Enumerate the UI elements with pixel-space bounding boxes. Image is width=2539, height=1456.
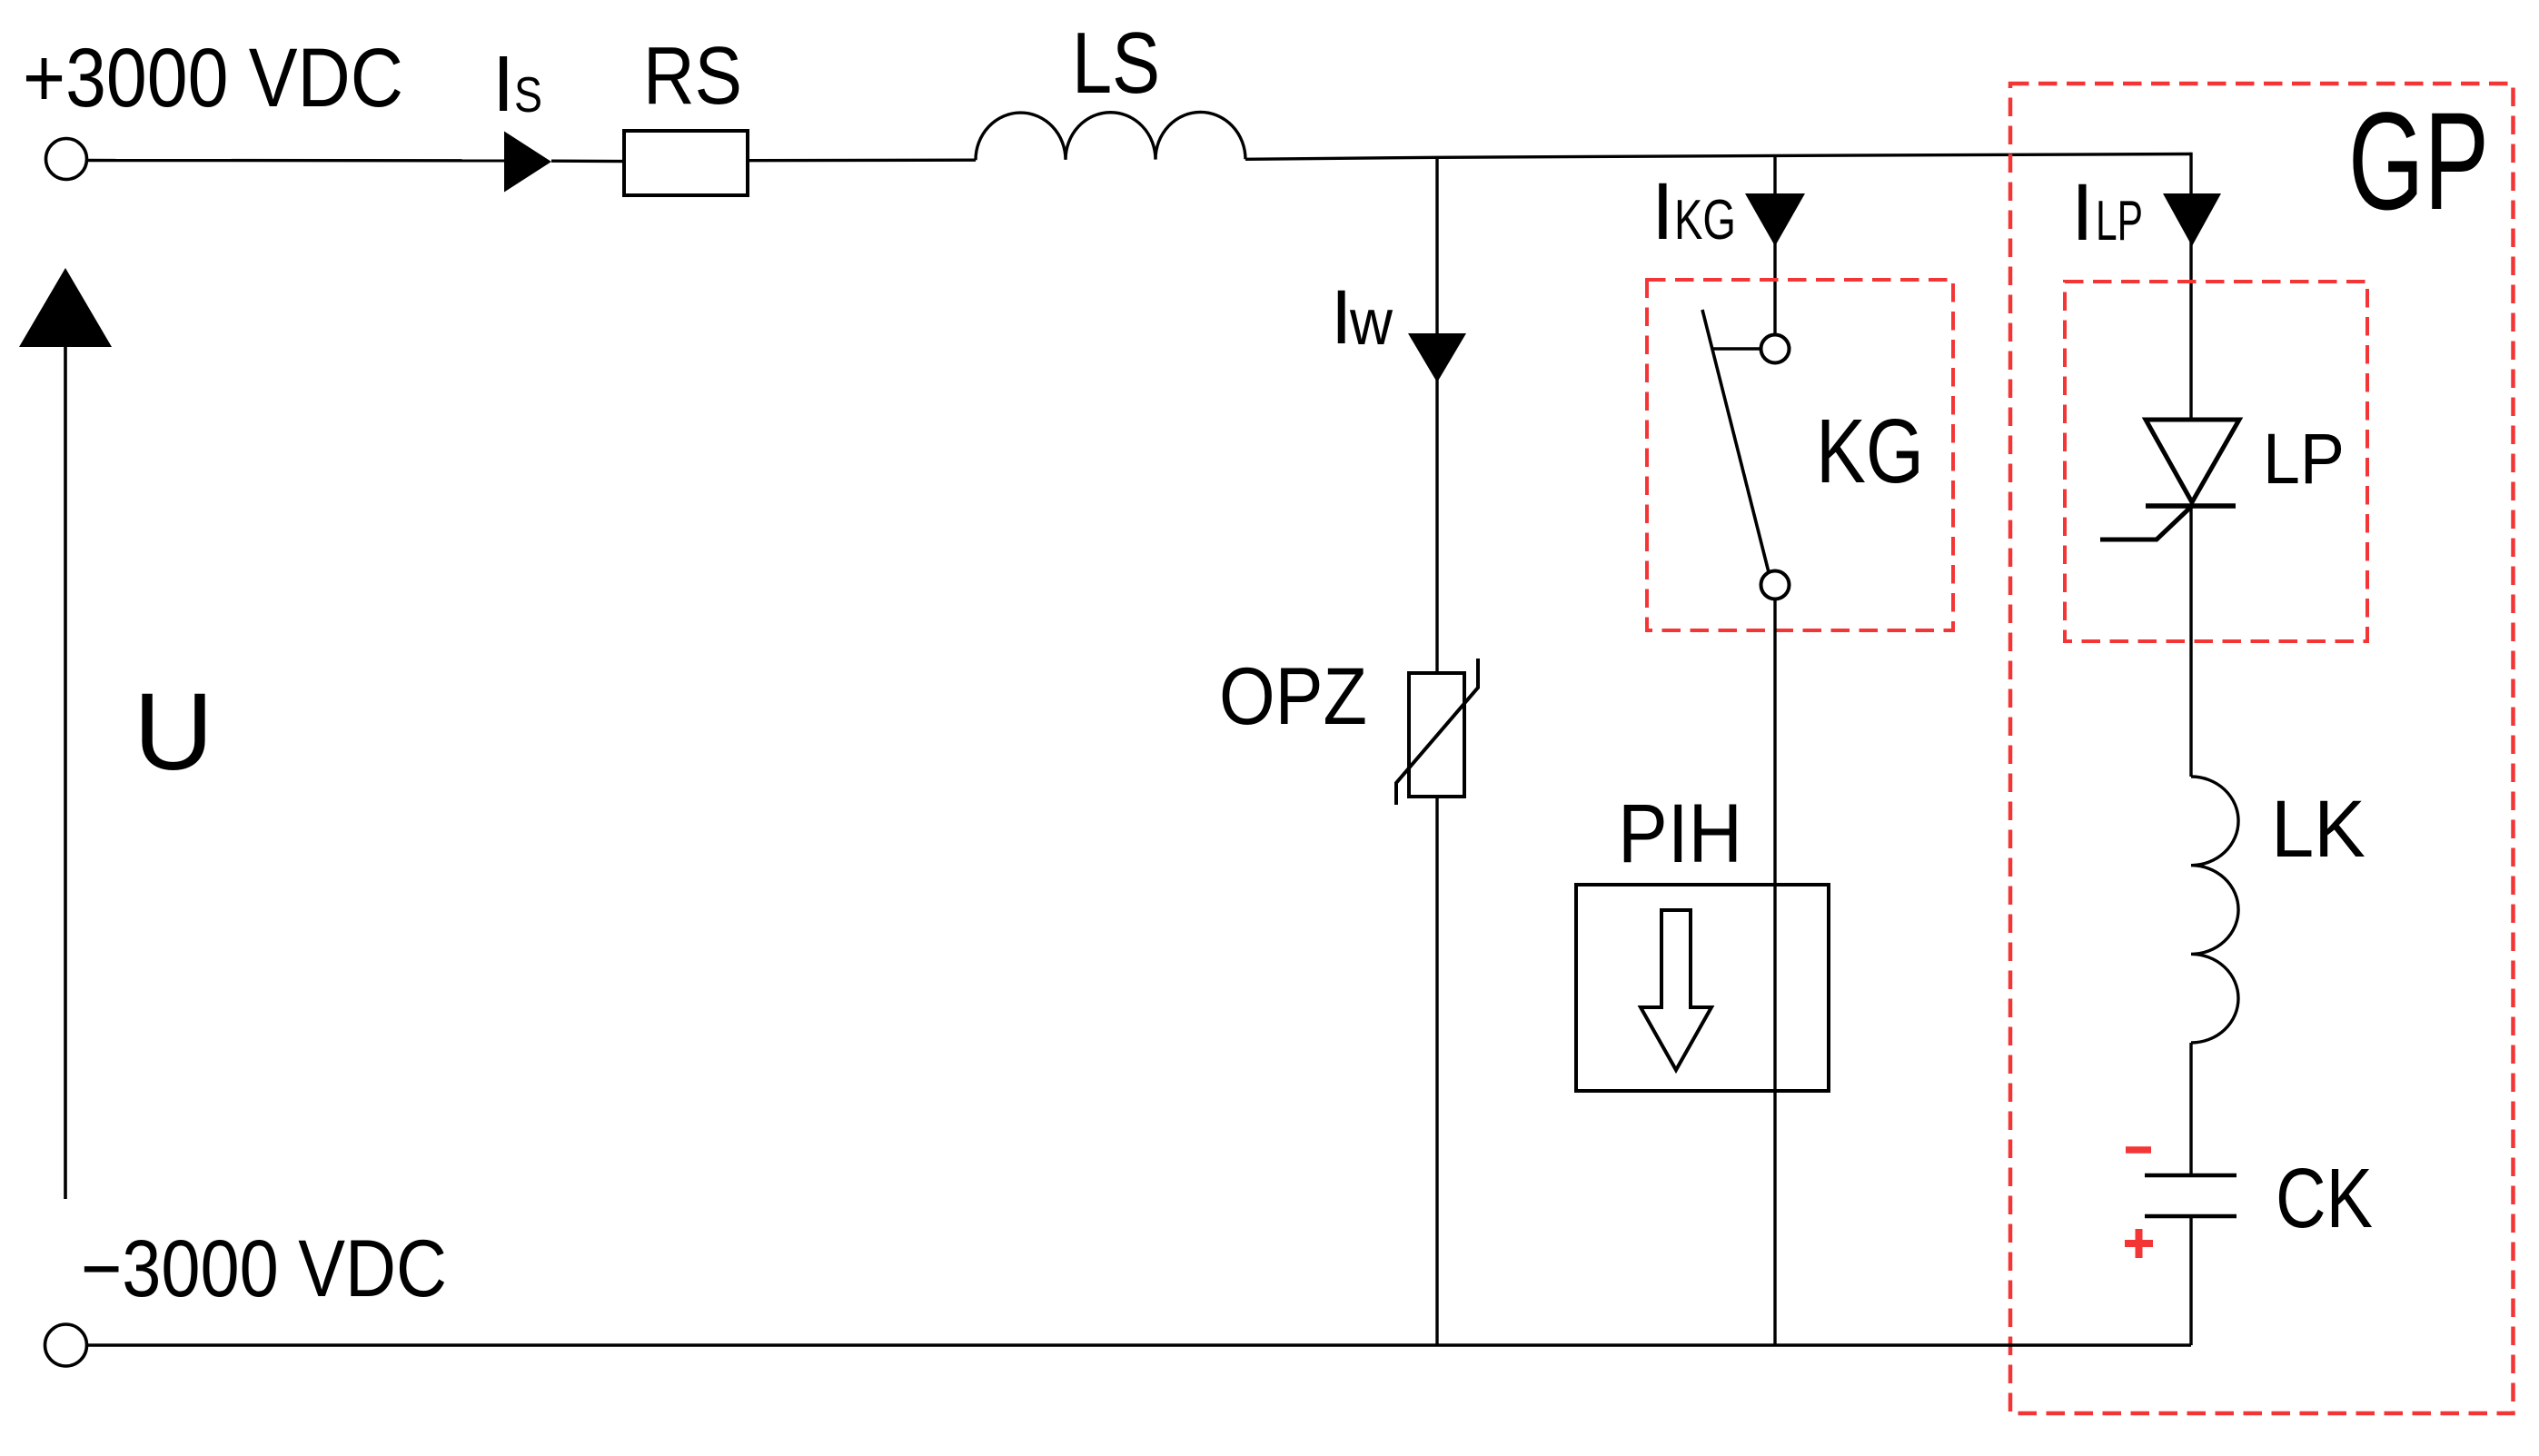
svg-text:w: w	[1349, 287, 1393, 359]
varistor OPZ body	[1409, 673, 1464, 797]
voltage arrow U shaft	[64, 345, 67, 1199]
dashed box KG	[1647, 280, 1953, 630]
svg-text:LP: LP	[2263, 418, 2345, 499]
svg-text:LP: LP	[2096, 190, 2143, 253]
wire switch to bottom bus	[1773, 599, 1776, 1346]
svg-text:RS: RS	[643, 31, 742, 122]
svg-text:−3000 VDC: −3000 VDC	[81, 1223, 447, 1313]
wire top from terminal to diode	[87, 159, 506, 163]
switch KG top contact	[1761, 335, 1790, 363]
dashed box LP	[2065, 282, 2367, 641]
wire GP branch down from corner	[2189, 153, 2192, 420]
capacitor CK bottom plate	[2145, 1214, 2237, 1219]
svg-text:GP: GP	[2348, 84, 2489, 239]
svg-text:OPZ: OPZ	[1219, 650, 1367, 741]
polarity plus (red)	[2125, 1229, 2153, 1258]
svg-text:KG: KG	[1674, 189, 1736, 252]
svg-text:I: I	[1331, 274, 1352, 360]
svg-text:CK: CK	[2276, 1151, 2373, 1245]
svg-text:LK: LK	[2271, 783, 2365, 874]
wire varistor to bottom bus	[1435, 797, 1438, 1345]
diode arrow IS (current direction)	[504, 132, 551, 193]
svg-text:I: I	[492, 40, 514, 128]
inductor LK	[2191, 777, 2238, 1043]
arrow Iw (current direction)	[1408, 333, 1466, 382]
varistor OPZ diagonal stroke	[1396, 659, 1478, 805]
bottom bus wire	[86, 1343, 2191, 1346]
svg-text:I: I	[1651, 165, 1674, 256]
wire resistor to inductor LS	[748, 158, 976, 162]
thyristor LP triangle	[2146, 420, 2239, 502]
svg-text:LS: LS	[1072, 15, 1160, 112]
arrow IKG (current direction)	[1745, 193, 1805, 246]
wire KG branch from top bus	[1773, 155, 1776, 335]
svg-text:I: I	[2071, 166, 2094, 257]
switch KG blade	[1702, 310, 1769, 572]
svg-text:U: U	[134, 669, 213, 793]
switch KG bottom contact	[1761, 571, 1790, 599]
svg-text:+3000 VDC: +3000 VDC	[23, 32, 403, 124]
thyristor LP gate	[2100, 506, 2192, 540]
dashed box GP	[2010, 84, 2514, 1413]
svg-text:KG: KG	[1816, 401, 1924, 502]
wire inductor LK to capacitor CK	[2189, 1043, 2192, 1174]
arrow ILP (current direction)	[2163, 193, 2221, 246]
inductor LS	[976, 112, 1245, 160]
terminal +3000 VDC	[46, 139, 87, 180]
thyristor LP cathode bar	[2146, 503, 2236, 509]
svg-text:S: S	[514, 66, 542, 123]
wire diode to resistor RS	[551, 159, 624, 163]
voltage arrow U head	[19, 268, 112, 347]
switch KG tick	[1712, 347, 1760, 351]
polarity minus (red)	[2126, 1146, 2151, 1154]
wire inductor to right corner	[1245, 154, 2191, 160]
svg-text:PIH: PIH	[1618, 787, 1742, 880]
terminal -3000 VDC	[45, 1324, 87, 1366]
box PIH	[1576, 885, 1829, 1091]
wire thyristor to inductor LK	[2189, 506, 2192, 777]
node junction OPZ branch / wire down	[1435, 157, 1438, 673]
capacitor CK top plate	[2145, 1174, 2237, 1178]
resistor RS	[624, 131, 748, 195]
wire capacitor CK to bottom bus	[2189, 1218, 2192, 1345]
arrow outline inside PIH	[1641, 910, 1711, 1070]
